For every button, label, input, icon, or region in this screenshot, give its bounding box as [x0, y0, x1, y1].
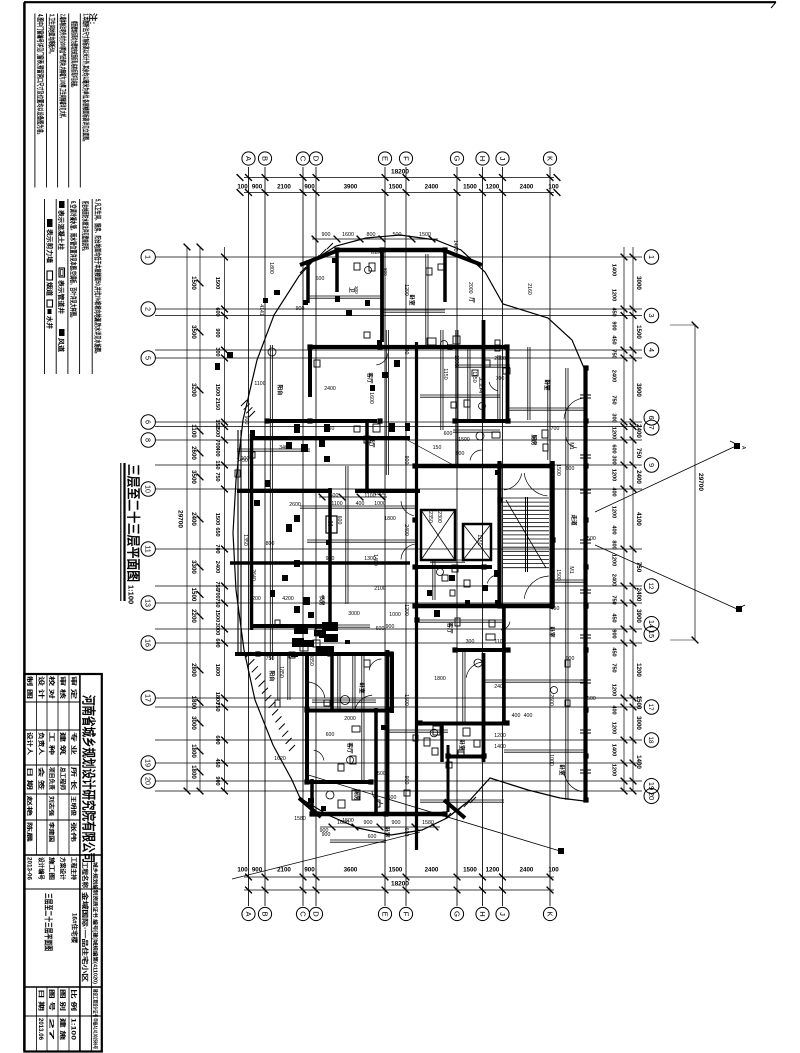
- svg-text:1500: 1500: [374, 771, 386, 777]
- svg-text:负责人: 负责人: [37, 732, 45, 756]
- svg-text:建 筑: 建 筑: [59, 732, 67, 755]
- svg-text:2600: 2600: [190, 446, 197, 460]
- svg-text:设计人: 设计人: [26, 732, 34, 756]
- svg-text:2000: 2000: [467, 282, 473, 294]
- svg-text:900: 900: [214, 776, 220, 785]
- svg-text:审 核: 审 核: [59, 676, 67, 699]
- svg-text:1500: 1500: [635, 696, 642, 710]
- svg-text:1500: 1500: [214, 425, 220, 437]
- svg-text:2100: 2100: [374, 586, 386, 592]
- svg-text:1: 1: [647, 255, 656, 259]
- svg-text:2400: 2400: [425, 184, 439, 191]
- svg-text:2400: 2400: [324, 386, 336, 392]
- svg-text:5: 5: [144, 356, 153, 360]
- svg-text:900: 900: [243, 416, 249, 425]
- svg-text:三层至二十三层平面图: 三层至二十三层平面图: [126, 464, 142, 582]
- svg-text:所 长: 所 长: [70, 767, 78, 792]
- svg-text:2.墙体除注明外均为200厚加气砼砌块,内隔墙为100厚,卫: 2.墙体除注明外均为200厚加气砼砌块,内隔墙为100厚,卫生间隔墙详见大样。: [59, 14, 68, 120]
- svg-text:9: 9: [647, 463, 656, 467]
- svg-text:工程名称: 工程名称: [81, 862, 90, 889]
- svg-text:17: 17: [144, 694, 153, 702]
- svg-text:300: 300: [466, 639, 475, 645]
- svg-text:4141: 4141: [258, 304, 264, 316]
- svg-text:1200: 1200: [403, 604, 409, 616]
- svg-text:1:100: 1:100: [70, 1018, 76, 1041]
- svg-text:H: H: [478, 911, 487, 916]
- svg-text:1500: 1500: [463, 867, 477, 874]
- svg-text:900: 900: [392, 820, 401, 826]
- svg-text:800: 800: [383, 268, 388, 276]
- svg-text:100: 100: [237, 867, 248, 874]
- svg-text:500: 500: [330, 493, 339, 499]
- svg-text:1200: 1200: [403, 284, 409, 296]
- svg-text:1150: 1150: [476, 534, 482, 545]
- svg-text:900: 900: [326, 556, 335, 562]
- svg-text:2300: 2300: [436, 511, 442, 523]
- svg-text:600: 600: [214, 638, 220, 647]
- svg-text:F: F: [401, 912, 410, 917]
- svg-text:1200: 1200: [611, 289, 617, 301]
- svg-text:卧室: 卧室: [358, 682, 366, 694]
- svg-text:400: 400: [512, 713, 521, 719]
- svg-text:750: 750: [214, 598, 220, 607]
- svg-text:1100: 1100: [254, 381, 265, 387]
- svg-text:客厅: 客厅: [366, 371, 374, 384]
- svg-text:书房: 书房: [318, 594, 326, 606]
- svg-text:刘志强: 刘志强: [48, 796, 56, 817]
- svg-text:设计编号: 设计编号: [37, 857, 45, 880]
- svg-text:3000: 3000: [635, 716, 642, 730]
- svg-text:2400: 2400: [611, 574, 617, 586]
- svg-text:1: 1: [144, 255, 153, 259]
- svg-text:水井: 水井: [45, 316, 54, 330]
- svg-text:1400: 1400: [452, 240, 458, 252]
- svg-text:1500: 1500: [214, 513, 220, 525]
- svg-text:1000: 1000: [453, 355, 459, 367]
- svg-text:1500: 1500: [389, 867, 403, 874]
- svg-text:1200: 1200: [611, 722, 617, 734]
- svg-text:1500: 1500: [190, 276, 197, 290]
- svg-text:日 期: 日 期: [26, 767, 34, 790]
- svg-text:300: 300: [611, 455, 617, 464]
- svg-text:图 别: 图 别: [59, 989, 67, 1011]
- svg-text:1500: 1500: [389, 184, 403, 191]
- svg-text:600: 600: [376, 626, 385, 632]
- svg-text:2400: 2400: [190, 512, 197, 526]
- svg-text:18: 18: [647, 736, 654, 744]
- svg-text:11: 11: [144, 545, 153, 552]
- svg-text:400: 400: [611, 525, 617, 534]
- svg-text:7: 7: [647, 426, 656, 430]
- svg-text:700: 700: [214, 589, 220, 598]
- svg-text:3: 3: [647, 314, 656, 318]
- svg-text:14: 14: [647, 620, 656, 628]
- svg-text:3200: 3200: [190, 383, 197, 397]
- svg-text:100: 100: [237, 184, 248, 191]
- svg-text:1800: 1800: [190, 765, 197, 779]
- svg-text:2160: 2160: [526, 283, 532, 295]
- svg-text:600: 600: [214, 735, 220, 744]
- svg-text:1150: 1150: [442, 368, 448, 379]
- svg-text:20: 20: [144, 777, 153, 785]
- svg-text:900: 900: [322, 232, 331, 238]
- svg-text:1500: 1500: [214, 384, 220, 396]
- svg-text:卧室: 卧室: [558, 764, 566, 776]
- svg-text:2000: 2000: [494, 356, 506, 362]
- svg-text:河南省城乡规划设计研究院有限公司: 河南省城乡规划设计研究院有限公司: [81, 695, 97, 863]
- svg-text:300: 300: [611, 413, 617, 422]
- svg-text:3000: 3000: [214, 623, 220, 635]
- svg-text:900: 900: [403, 456, 409, 465]
- svg-text:1500: 1500: [458, 437, 470, 443]
- svg-text:650: 650: [214, 527, 220, 536]
- svg-text:600: 600: [611, 444, 617, 453]
- svg-text:29700: 29700: [697, 473, 704, 491]
- svg-text:C: C: [298, 156, 307, 162]
- svg-text:1800: 1800: [214, 664, 220, 676]
- svg-text:1100: 1100: [331, 501, 342, 507]
- svg-text:2200: 2200: [190, 609, 197, 623]
- svg-text:750: 750: [635, 448, 642, 459]
- svg-text:700: 700: [496, 376, 505, 382]
- svg-text:5.凡卫生间、厨房、阳台地面均低于本层楼面50,并找1%坡坡: 5.凡卫生间、厨房、阳台地面均低于本层楼面50,并找1%坡坡向地漏,防水详见水施…: [94, 199, 103, 356]
- svg-text:700: 700: [214, 544, 220, 553]
- svg-text:审 定: 审 定: [70, 676, 78, 699]
- svg-text:项目负责: 项目负责: [48, 767, 56, 790]
- svg-text:2100: 2100: [277, 184, 291, 191]
- svg-text:1500: 1500: [214, 277, 220, 289]
- svg-text:3500: 3500: [190, 325, 197, 339]
- svg-text:G: G: [452, 911, 461, 917]
- svg-text:3900: 3900: [344, 184, 358, 191]
- svg-text:1200: 1200: [611, 506, 617, 518]
- svg-text:1800: 1800: [384, 516, 396, 522]
- svg-text:表示剪力墙: 表示剪力墙: [45, 228, 54, 264]
- svg-text:900: 900: [241, 456, 250, 462]
- svg-text:400: 400: [611, 487, 617, 496]
- svg-text:450: 450: [611, 613, 617, 622]
- svg-text:4: 4: [647, 348, 656, 352]
- svg-text:600: 600: [326, 732, 335, 738]
- svg-text:300: 300: [354, 286, 359, 294]
- svg-text:16: 16: [144, 639, 153, 647]
- svg-text:400: 400: [214, 447, 220, 456]
- svg-text:1500: 1500: [463, 184, 477, 191]
- svg-text:阳台地面防水做法详见建施说明。: 阳台地面防水做法详见建施说明。: [81, 201, 90, 253]
- svg-text:表示管道井: 表示管道井: [57, 279, 66, 315]
- svg-text:1580: 1580: [294, 816, 306, 822]
- svg-text:1500: 1500: [419, 232, 431, 238]
- svg-text:1500: 1500: [190, 588, 197, 602]
- svg-text:6: 6: [144, 420, 153, 424]
- svg-text:100: 100: [548, 867, 559, 874]
- svg-text:450: 450: [214, 758, 220, 767]
- svg-text:150: 150: [433, 445, 442, 451]
- svg-text:750: 750: [611, 395, 617, 404]
- svg-text:卧室: 卧室: [548, 626, 556, 638]
- svg-text:750: 750: [214, 472, 220, 481]
- svg-text:1200: 1200: [249, 596, 261, 602]
- svg-text:2400: 2400: [635, 424, 642, 438]
- svg-text:18200: 18200: [391, 881, 409, 888]
- svg-text:A: A: [244, 156, 253, 162]
- svg-text:1000: 1000: [374, 501, 386, 507]
- svg-text:450: 450: [611, 335, 617, 344]
- svg-text:20: 20: [647, 792, 656, 800]
- svg-text:750: 750: [266, 656, 275, 662]
- svg-text:1200: 1200: [611, 554, 617, 566]
- svg-text:G: G: [452, 156, 461, 162]
- svg-text:500: 500: [393, 232, 402, 238]
- svg-text:1500: 1500: [403, 694, 409, 706]
- svg-text:D: D: [311, 911, 320, 917]
- svg-text:800: 800: [266, 541, 275, 547]
- svg-text:2400: 2400: [214, 561, 220, 573]
- svg-text:客厅: 客厅: [446, 621, 454, 634]
- svg-text:卧室: 卧室: [408, 294, 416, 306]
- svg-text:M1: M1: [568, 442, 574, 449]
- svg-text:3.卫生间地面均降板50。: 3.卫生间地面均降板50。: [48, 14, 57, 56]
- svg-text:1500: 1500: [635, 325, 642, 339]
- svg-text:900: 900: [214, 328, 220, 337]
- svg-text:城乡规划编制资质证书 编号[建]城规编第(411020): 城乡规划编制资质证书 编号[建]城规编第(411020): [92, 862, 100, 984]
- svg-text:J: J: [498, 912, 507, 916]
- svg-text:1350: 1350: [242, 534, 248, 546]
- svg-text:1200: 1200: [611, 764, 617, 776]
- svg-text:H: H: [326, 521, 333, 526]
- svg-text:900: 900: [304, 867, 315, 874]
- svg-text:1100: 1100: [494, 639, 505, 645]
- svg-text:300: 300: [214, 347, 220, 356]
- svg-text:29700: 29700: [177, 510, 184, 528]
- svg-text:1500: 1500: [555, 569, 561, 581]
- svg-text:2013.06: 2013.06: [37, 1018, 43, 1041]
- svg-text:3000: 3000: [348, 611, 360, 617]
- svg-text:900: 900: [320, 828, 329, 834]
- svg-text:卫: 卫: [348, 287, 355, 293]
- svg-text:2: 2: [144, 307, 153, 311]
- svg-text:方案设计: 方案设计: [59, 857, 67, 880]
- svg-text:16#住宅楼: 16#住宅楼: [71, 913, 80, 944]
- svg-text:注:: 注:: [88, 13, 98, 25]
- svg-text:A: A: [740, 446, 746, 450]
- svg-text:1200: 1200: [611, 469, 617, 481]
- svg-text:2400: 2400: [520, 867, 534, 874]
- svg-text:1600: 1600: [368, 392, 374, 404]
- svg-text:2400: 2400: [635, 588, 642, 602]
- svg-text:8: 8: [144, 438, 153, 442]
- svg-text:1200: 1200: [494, 733, 506, 739]
- svg-text:1620: 1620: [274, 756, 286, 762]
- svg-text:1580: 1580: [422, 820, 434, 826]
- svg-text:18200: 18200: [391, 169, 409, 176]
- svg-text:2600: 2600: [548, 694, 554, 706]
- svg-text:楼面建筑标高均为建筑完成面标高,结构标高详见结施。: 楼面建筑标高均为建筑完成面标高,结构标高详见结施。: [70, 21, 79, 89]
- svg-text:400: 400: [611, 705, 617, 714]
- svg-text:1.本图所注尺寸除标高以米计外,其余均以毫米为单位,各层楼面: 1.本图所注尺寸除标高以米计外,其余均以毫米为单位,各层楼面标高详见立面图。: [82, 14, 91, 144]
- svg-text:900: 900: [364, 820, 373, 826]
- svg-text:K: K: [545, 156, 554, 161]
- svg-text:制 图: 制 图: [26, 676, 34, 699]
- svg-text:4200: 4200: [282, 596, 294, 602]
- svg-text:1200: 1200: [611, 684, 617, 696]
- svg-text:3600: 3600: [344, 867, 358, 874]
- svg-text:烟道: 烟道: [45, 282, 54, 297]
- svg-text:王明俊: 王明俊: [70, 796, 78, 817]
- svg-text:2400: 2400: [611, 370, 617, 382]
- svg-text:1400: 1400: [494, 744, 506, 750]
- svg-text:1200: 1200: [611, 427, 617, 439]
- svg-text:1200: 1200: [635, 663, 642, 677]
- svg-text:450: 450: [611, 647, 617, 656]
- svg-text:6: 6: [647, 416, 656, 420]
- svg-text:750: 750: [611, 663, 617, 672]
- svg-text:100: 100: [548, 184, 559, 191]
- svg-text:H: H: [478, 156, 487, 161]
- svg-text:2350: 2350: [427, 511, 433, 523]
- svg-text:卧室: 卧室: [458, 739, 466, 751]
- svg-text:风道: 风道: [57, 338, 66, 353]
- svg-text:3900: 3900: [635, 609, 642, 623]
- svg-text:750: 750: [611, 349, 617, 358]
- svg-text:600: 600: [214, 307, 220, 316]
- svg-text:400: 400: [524, 713, 533, 719]
- svg-text:表示混凝土柱: 表示混凝土柱: [57, 209, 66, 251]
- svg-text:1:100: 1:100: [127, 585, 136, 604]
- svg-text:工程主持: 工程主持: [70, 857, 78, 880]
- svg-text:900: 900: [386, 624, 395, 630]
- svg-text:1800: 1800: [190, 744, 197, 758]
- svg-text:B: B: [260, 911, 269, 916]
- svg-text:1000: 1000: [389, 612, 401, 618]
- svg-text:阳台: 阳台: [276, 384, 284, 396]
- svg-text:900: 900: [304, 184, 315, 191]
- svg-text:6.空调冷凝水管、雨水管位置详见本图,空调板、百叶详见大样图: 6.空调冷凝水管、雨水管位置详见本图,空调板、百叶详见大样图。: [69, 201, 78, 320]
- svg-text:800: 800: [367, 232, 376, 238]
- svg-text:600: 600: [368, 834, 377, 840]
- svg-text:会 签: 会 签: [37, 767, 45, 792]
- svg-text:C: C: [298, 911, 307, 917]
- svg-text:2800: 2800: [190, 663, 197, 677]
- svg-text:1000: 1000: [548, 754, 554, 766]
- svg-text:2400: 2400: [520, 184, 534, 191]
- svg-text:2013-06: 2013-06: [26, 857, 32, 881]
- svg-text:600: 600: [566, 466, 575, 472]
- svg-text:1500: 1500: [214, 610, 220, 622]
- svg-text:150: 150: [214, 460, 220, 469]
- svg-text:1200: 1200: [486, 867, 500, 874]
- svg-text:750: 750: [611, 595, 617, 604]
- svg-text:400: 400: [356, 501, 365, 507]
- svg-text:17: 17: [647, 703, 654, 711]
- svg-text:2400: 2400: [425, 867, 439, 874]
- svg-text:1850: 1850: [278, 666, 284, 678]
- svg-text:3000: 3000: [190, 716, 197, 730]
- svg-text:2400: 2400: [635, 470, 642, 484]
- svg-text:900: 900: [456, 451, 465, 457]
- svg-text:M1: M1: [568, 566, 574, 573]
- svg-text:1300: 1300: [364, 556, 376, 562]
- svg-text:4.图中门窗编号详见门窗表,预留洞口尺寸及位置均以设备图为准: 4.图中门窗编号详见门窗表,预留洞口尺寸及位置均以设备图为准。: [36, 14, 45, 137]
- svg-text:B: B: [260, 156, 269, 161]
- svg-text:900: 900: [296, 306, 305, 312]
- svg-text:J: J: [498, 157, 507, 161]
- svg-text:1800: 1800: [268, 262, 274, 274]
- svg-text:1500: 1500: [584, 696, 596, 702]
- svg-text:总工程师: 总工程师: [59, 767, 67, 790]
- svg-text:2640: 2640: [250, 569, 256, 581]
- svg-text:450: 450: [551, 606, 560, 612]
- svg-text:700: 700: [551, 426, 560, 432]
- svg-text:金域国际·一品住宅小区: 金域国际·一品住宅小区: [81, 891, 90, 983]
- svg-text:走道: 走道: [570, 513, 578, 526]
- svg-text:600: 600: [444, 431, 453, 437]
- svg-text:4100: 4100: [635, 512, 642, 526]
- svg-text:600: 600: [316, 276, 325, 282]
- svg-text:800: 800: [403, 346, 409, 355]
- svg-text:19: 19: [647, 782, 656, 790]
- svg-text:建设工程设计证书 甲级A141002586号: 建设工程设计证书 甲级A141002586号: [92, 988, 99, 1049]
- svg-text:2600: 2600: [289, 502, 301, 508]
- svg-text:E: E: [380, 911, 389, 916]
- svg-text:750: 750: [214, 702, 220, 711]
- svg-text:450: 450: [611, 307, 617, 316]
- svg-text:施工图: 施工图: [48, 857, 56, 880]
- svg-text:比 例: 比 例: [70, 989, 78, 1011]
- svg-text:3300: 3300: [190, 560, 197, 574]
- svg-text:1500: 1500: [342, 818, 354, 824]
- svg-text:3900: 3900: [635, 383, 642, 397]
- svg-text:专 业: 专 业: [70, 732, 78, 755]
- svg-text:1400: 1400: [611, 744, 617, 756]
- svg-text:日 期: 日 期: [37, 989, 45, 1011]
- svg-text:设 计: 设 计: [37, 676, 45, 699]
- svg-text:900: 900: [403, 776, 409, 785]
- svg-text:三层至二十三层平面图: 三层至二十三层平面图: [44, 893, 54, 951]
- svg-text:K: K: [545, 911, 554, 916]
- svg-text:陈晨: 陈晨: [26, 822, 34, 843]
- svg-text:图 号: 图 号: [48, 989, 56, 1011]
- svg-text:13: 13: [144, 599, 153, 607]
- svg-text:3000: 3000: [635, 276, 642, 290]
- svg-text:2150: 2150: [214, 398, 220, 410]
- svg-text:2000: 2000: [344, 716, 356, 722]
- svg-text:10: 10: [144, 485, 153, 493]
- svg-text:1800: 1800: [434, 676, 446, 682]
- svg-text:F: F: [401, 156, 410, 161]
- svg-text:1400: 1400: [635, 755, 642, 769]
- svg-text:800: 800: [611, 540, 617, 549]
- svg-text:卧室: 卧室: [383, 826, 391, 838]
- svg-text:1000: 1000: [374, 491, 386, 497]
- svg-text:0850: 0850: [308, 654, 314, 666]
- svg-text:工 种: 工 种: [48, 732, 56, 755]
- svg-text:阳台: 阳台: [268, 670, 276, 682]
- svg-text:2400: 2400: [403, 524, 409, 536]
- svg-text:1400: 1400: [611, 264, 617, 276]
- svg-text:900: 900: [611, 629, 617, 638]
- svg-text:3500: 3500: [190, 470, 197, 484]
- svg-text:2400: 2400: [494, 684, 506, 690]
- svg-text:E: E: [380, 156, 389, 161]
- svg-text:厅: 厅: [468, 297, 476, 303]
- svg-text:张伟: 张伟: [70, 822, 78, 843]
- svg-text:客厅: 客厅: [346, 741, 354, 754]
- svg-text:900: 900: [611, 321, 617, 330]
- svg-text:12: 12: [647, 582, 654, 590]
- svg-text:27: 27: [48, 1018, 54, 1042]
- svg-text:900: 900: [252, 184, 263, 191]
